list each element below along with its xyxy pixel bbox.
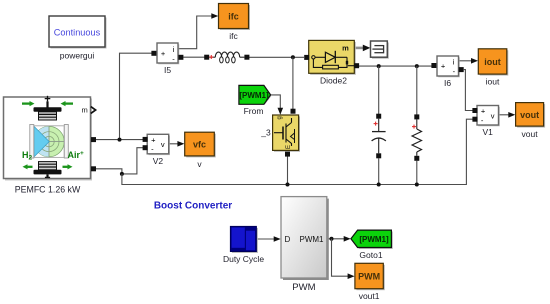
wire: inductor to diode node xyxy=(249,56,304,58)
svg-text:g: g xyxy=(277,116,283,119)
PEMFC - port xyxy=(91,166,96,171)
svg-text:vfc: vfc xyxy=(193,139,206,149)
vout1 display block (PWM) xyxy=(355,263,385,290)
svg-text:Duty Cycle: Duty Cycle xyxy=(223,254,264,264)
svg-text:[PWM1]: [PWM1] xyxy=(239,91,269,100)
svg-text:V1: V1 xyxy=(482,127,493,137)
svg-text:m: m xyxy=(342,44,349,53)
wire: MOSFET source to bus xyxy=(287,156,289,185)
svg-text:ifc: ifc xyxy=(228,12,239,22)
svg-text:v: v xyxy=(161,140,165,149)
fuel cell icon: outlet arrows xyxy=(27,166,33,168)
svg-text:I6: I6 xyxy=(444,78,451,88)
wire: I5 + input from PEMFC + node xyxy=(120,53,154,139)
svg-text:iout: iout xyxy=(486,77,500,87)
svg-text:V2: V2 xyxy=(153,156,164,166)
Diode2 block xyxy=(304,40,359,74)
From tag PWM1 xyxy=(239,85,272,104)
node junction PWM out xyxy=(330,237,334,241)
svg-text:vout: vout xyxy=(520,110,539,120)
wire: drain riser to MOSFET xyxy=(292,57,294,110)
capacitor red polarity + xyxy=(374,123,378,125)
vfc display block xyxy=(185,132,216,157)
MOSFET switch block xyxy=(273,109,300,157)
wire: negative node to V2 - xyxy=(122,148,145,174)
wire: V1 v to vout xyxy=(499,114,509,116)
svg-text:PWM1: PWM1 xyxy=(300,235,325,244)
svg-text:+: + xyxy=(151,135,156,144)
wire: V2 v to vfc xyxy=(169,143,178,145)
wire: From tag to MOSFET gate xyxy=(271,95,281,109)
svg-text:PWM: PWM xyxy=(358,272,380,282)
inductor L xyxy=(204,52,249,63)
svg-text:Goto1: Goto1 xyxy=(359,250,382,260)
PEMFC + port xyxy=(91,137,96,142)
node junction source-bus xyxy=(286,183,290,187)
node junction res bottom xyxy=(415,183,419,187)
current measurement I6 xyxy=(431,56,463,77)
svg-text:Boost Converter: Boost Converter xyxy=(154,201,232,212)
inductor red polarity + xyxy=(209,56,213,58)
svg-text:v: v xyxy=(491,111,495,120)
capacitor C xyxy=(372,114,386,159)
wire: Duty Cycle to PWM D xyxy=(258,238,274,240)
fuel cell icon: membrane frame xyxy=(34,126,64,158)
wire: PEMFC + to V2 + xyxy=(96,139,145,141)
vout display block xyxy=(516,103,546,128)
wire: I5 i output to ifc display xyxy=(179,16,213,49)
fuel cell icon: sphere xyxy=(34,126,64,156)
svg-text:+: + xyxy=(161,49,166,58)
fuel cell icon: minus xyxy=(45,176,50,178)
wire: capacitor risers xyxy=(378,66,380,114)
wire: PWM output to vout1 scope xyxy=(332,239,349,276)
wire: I6 i output to iout xyxy=(459,60,472,62)
svg-text:+: + xyxy=(441,62,446,71)
svg-text:+: + xyxy=(481,107,486,116)
wire: PEMFC - to negative node xyxy=(96,169,122,174)
svg-text:ifc: ifc xyxy=(229,31,238,41)
node junction cap bottom xyxy=(377,183,381,187)
wire: diode m measurement arrow xyxy=(356,47,364,50)
wire: I5 - to inductor xyxy=(183,56,204,58)
svg-text:E: E xyxy=(286,145,292,149)
fuel cell icon: top terminal + xyxy=(45,98,51,100)
svg-text:PWM: PWM xyxy=(292,282,315,293)
node junction res top xyxy=(415,64,419,68)
voltage measurement V2 xyxy=(143,134,170,155)
svg-text:vout1: vout1 xyxy=(359,291,380,301)
svg-text:PEMFC 1.26 kW: PEMFC 1.26 kW xyxy=(15,184,81,194)
svg-text:iout: iout xyxy=(484,57,501,67)
node junction PEMFC+ xyxy=(118,138,122,142)
svg-text:From: From xyxy=(244,106,264,116)
voltage measurement V1 xyxy=(472,106,499,127)
wire: PWM output to Goto1 xyxy=(328,238,344,240)
PWM subsystem block xyxy=(281,197,329,280)
iout display block xyxy=(478,49,508,76)
svg-text:Continuous: Continuous xyxy=(54,28,101,38)
svg-text:_3: _3 xyxy=(260,128,271,138)
svg-text:[PWM1]: [PWM1] xyxy=(359,235,389,244)
node junction cap top xyxy=(377,64,381,68)
resistor red polarity + xyxy=(412,126,416,128)
Goto1 tag PWM1 xyxy=(351,230,393,249)
svg-text:m: m xyxy=(82,106,88,115)
node junction mosfet drain xyxy=(291,55,295,59)
svg-text:D: D xyxy=(285,235,291,244)
scope display block (diode m) xyxy=(371,41,389,59)
fuel cell icon: top electrode xyxy=(34,107,62,112)
fuel cell icon: electrode plates xyxy=(30,125,34,159)
resistor R load xyxy=(412,114,422,160)
fuel cell icon: bottom electrode xyxy=(39,162,57,170)
wire: bottom bus xyxy=(122,119,473,184)
svg-text:Diode2: Diode2 xyxy=(320,76,347,86)
powergui block xyxy=(49,16,107,49)
svg-text:vout: vout xyxy=(522,129,539,139)
Duty Cycle constant block xyxy=(230,226,258,253)
PEMFC 1.26 kW fuel cell block xyxy=(4,96,97,181)
wire: resistor risers xyxy=(416,66,418,114)
fuel cell icon: inlet arrows xyxy=(22,102,31,104)
svg-text:powergui: powergui xyxy=(60,51,95,61)
wire: I6 - to V1 + xyxy=(464,70,473,111)
ifc display block xyxy=(219,4,251,31)
current measurement I5 xyxy=(151,43,183,64)
wire: output rail diode to I6 xyxy=(357,65,434,67)
node junction negative xyxy=(120,172,124,176)
fuel cell icon: H2 wedge xyxy=(34,126,49,157)
svg-text:I5: I5 xyxy=(164,65,171,75)
